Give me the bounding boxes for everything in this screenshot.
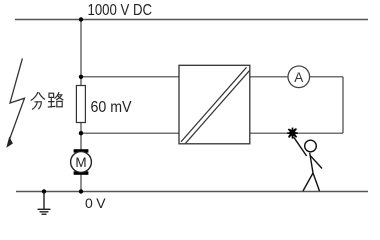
node 0V bus: bottom wire — [16, 191, 368, 193]
person right arm — [311, 156, 323, 169]
路 — [49, 93, 54, 97]
wire ammeter to right corner — [310, 76, 343, 78]
分 — [31, 93, 38, 101]
svg-text:A: A — [294, 70, 303, 85]
wire motor to bottom bus — [80, 173, 82, 192]
isolation amplifier U1 diagonal barrier line 2 — [186, 71, 250, 144]
person left arm to burst — [294, 137, 307, 156]
wire amplifier output to ammeter — [250, 76, 288, 78]
wire right vertical return — [342, 77, 344, 133]
person left leg — [303, 173, 313, 191]
wire upper sense lead to isolation amplifier — [81, 76, 179, 78]
lightning arrow (shunt indicator) — [8, 58, 24, 143]
person head — [305, 140, 317, 152]
motor M brush bar top — [74, 149, 89, 152]
wire amplifier lower output (touched wire) — [250, 132, 343, 134]
motor M brush bar bottom — [74, 171, 89, 174]
person right leg — [313, 173, 320, 191]
svg-text:M: M — [75, 155, 86, 170]
node 1000V bus: top wire — [15, 19, 368, 21]
wire lower sense lead to isolation amplifier — [81, 132, 179, 134]
isolation amplifier U1 box — [179, 65, 250, 144]
wire shunt bottom to motor — [80, 122, 82, 151]
junction dot lower sense — [79, 131, 83, 135]
svg-text:0 V: 0 V — [85, 195, 106, 211]
resistor shunt body — [76, 86, 85, 123]
ammeter A circle — [288, 66, 310, 88]
junction dot top bus — [79, 17, 83, 21]
person body — [310, 153, 313, 173]
junction dot upper sense — [79, 75, 83, 79]
lightning arrowhead — [6, 137, 13, 148]
svg-text:1000 V DC: 1000 V DC — [88, 2, 153, 19]
label 分路 (drawn glyphs) — [31, 93, 63, 110]
burst (contact point X) — [287, 128, 298, 139]
ground symbol — [38, 192, 51, 215]
svg-text:60 mV: 60 mV — [91, 99, 132, 116]
isolation amplifier U1 diagonal barrier line 1 — [181, 67, 247, 142]
wire left vertical from top bus to shunt — [80, 20, 82, 87]
motor M circle — [71, 152, 92, 173]
junction dot motor to 0V — [79, 189, 83, 193]
junction dot ground connection — [42, 189, 46, 193]
